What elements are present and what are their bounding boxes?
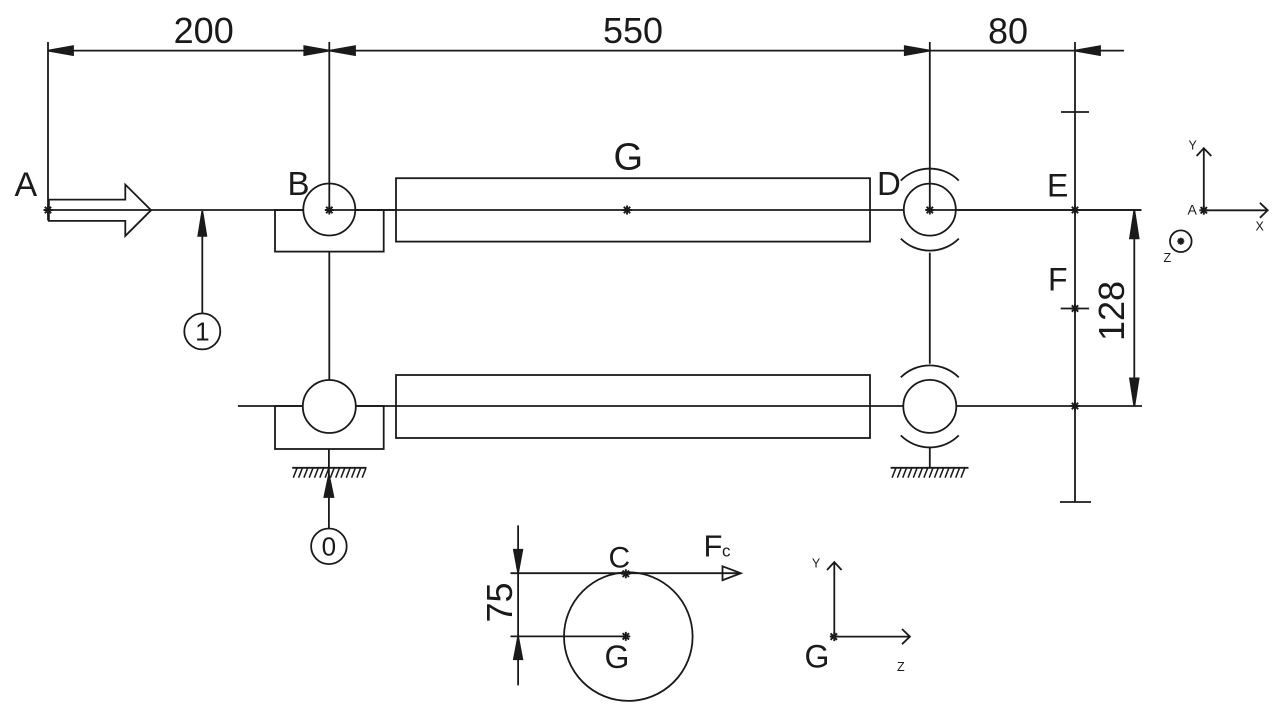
tick F	[1061, 308, 1089, 310]
marker G center	[621, 632, 630, 641]
dimension line top	[48, 50, 1124, 52]
svg-text:Z: Z	[1164, 251, 1172, 265]
dimension 128 top arrowhead	[1130, 210, 1139, 238]
coordinate system A: Y arrowhead	[1197, 148, 1212, 156]
stub D vertical into circle	[929, 184, 931, 210]
link B upper to lower bearing	[328, 252, 330, 381]
coordinate system A: X axis	[1204, 209, 1268, 211]
svg-text:G: G	[614, 136, 644, 178]
marker coord A origin	[1199, 206, 1208, 215]
coordinate system A: X arrowhead	[1260, 203, 1268, 218]
Fc open arrowhead	[723, 566, 741, 580]
coordinate system G: Y arrowhead	[827, 562, 842, 570]
gear lower rect	[396, 375, 870, 438]
dimension 75 line	[517, 525, 519, 685]
svg-text:C: C	[609, 542, 631, 575]
shaft 1 centerline	[48, 209, 1142, 211]
link D to lower bearing	[929, 253, 931, 364]
tick upper E line	[1061, 111, 1089, 113]
svg-text:550: 550	[603, 10, 663, 51]
marker C	[621, 569, 630, 578]
svg-text:A: A	[15, 166, 38, 204]
svg-text:80: 80	[988, 11, 1028, 52]
arrowhead dim 550 right	[905, 46, 930, 55]
ground left hatching	[293, 468, 366, 478]
lower left bearing circle	[303, 380, 356, 433]
stub B horizontal from center	[329, 209, 396, 211]
marker lower E	[1071, 402, 1080, 411]
extension line B	[328, 42, 330, 209]
reaction arrow 0 line	[328, 449, 330, 529]
ground left line	[292, 467, 366, 469]
coordinate system A: Z circle	[1170, 230, 1192, 252]
marker A	[44, 206, 53, 215]
svg-text:A: A	[1188, 202, 1198, 218]
svg-text:F: F	[704, 528, 723, 563]
ground right hatching	[892, 468, 965, 478]
bearing D top arc	[901, 169, 959, 181]
extension line A	[47, 42, 49, 221]
tick E line end	[1060, 501, 1091, 503]
svg-text:Y: Y	[812, 557, 821, 571]
extension line E vertical	[1074, 42, 1076, 502]
marker coord G origin	[830, 632, 839, 641]
svg-text:G: G	[605, 639, 630, 675]
arrowhead dim 200 left	[48, 46, 73, 55]
marker D	[925, 206, 934, 215]
svg-text:E: E	[1047, 168, 1068, 204]
svg-text:G: G	[805, 639, 830, 675]
dimension 128 line	[1133, 210, 1135, 406]
svg-text:c: c	[722, 541, 731, 560]
dimension 75 bottom arrowhead	[514, 637, 522, 659]
arrowhead dim 200 right	[304, 46, 329, 55]
node circle 1	[184, 313, 220, 349]
svg-text:B: B	[288, 165, 310, 202]
node circle 0	[311, 529, 347, 565]
ground right line	[891, 467, 969, 469]
gear G upper rect	[396, 178, 870, 241]
svg-text:200: 200	[174, 10, 234, 51]
stub D horizontal from center	[930, 209, 1142, 211]
coordinate system G: Z arrowhead	[902, 629, 910, 644]
marker G gear	[623, 206, 632, 215]
stub B vertical into circle	[328, 184, 330, 211]
dimension 128 bottom arrowhead	[1130, 378, 1139, 406]
arrowhead dim 80 right	[1075, 46, 1100, 55]
coordinate system G: Z axis	[834, 636, 910, 638]
lower right bearing circle	[903, 380, 956, 433]
marker coord Z circle	[1177, 238, 1184, 245]
svg-text:1: 1	[195, 317, 209, 347]
shaft 0 centerline	[238, 405, 1142, 407]
line at G center	[511, 635, 626, 637]
lower right bearing top arc	[901, 365, 959, 377]
drive arrow at A (hollow)	[49, 185, 151, 236]
svg-text:X: X	[1256, 220, 1265, 234]
gear section circle	[564, 572, 693, 701]
arrowhead dim 550 left	[330, 46, 355, 55]
reaction arrow 0 head	[324, 475, 333, 497]
marker F	[1071, 304, 1080, 313]
coordinate system G: Y axis	[833, 562, 835, 637]
bearing D bottom arc	[901, 239, 959, 251]
svg-text:Y: Y	[1189, 138, 1198, 152]
svg-text:75: 75	[479, 582, 520, 622]
point markers (asterisks)	[44, 206, 1209, 642]
dimension 75 top arrowhead	[514, 550, 522, 573]
bearing B pillow block	[275, 210, 384, 252]
bearing D circle	[904, 184, 956, 236]
svg-text:Z: Z	[897, 660, 905, 674]
reaction arrow 1 line	[201, 235, 203, 313]
lower left pillow block	[275, 406, 384, 449]
marker E	[1071, 206, 1080, 215]
lower right bearing stem	[929, 448, 931, 468]
svg-text:128: 128	[1091, 281, 1132, 341]
marker B	[325, 206, 334, 215]
extension line D	[929, 42, 931, 209]
bearing B circle	[303, 184, 355, 236]
coordinate system A: Y axis	[1203, 148, 1205, 210]
svg-text:D: D	[877, 165, 901, 202]
line at C with Fc force	[511, 572, 740, 574]
lower right bearing bottom arc	[901, 435, 959, 447]
reaction arrow 1 head	[198, 211, 206, 236]
svg-text:0: 0	[322, 532, 336, 562]
svg-text:F: F	[1048, 262, 1068, 298]
